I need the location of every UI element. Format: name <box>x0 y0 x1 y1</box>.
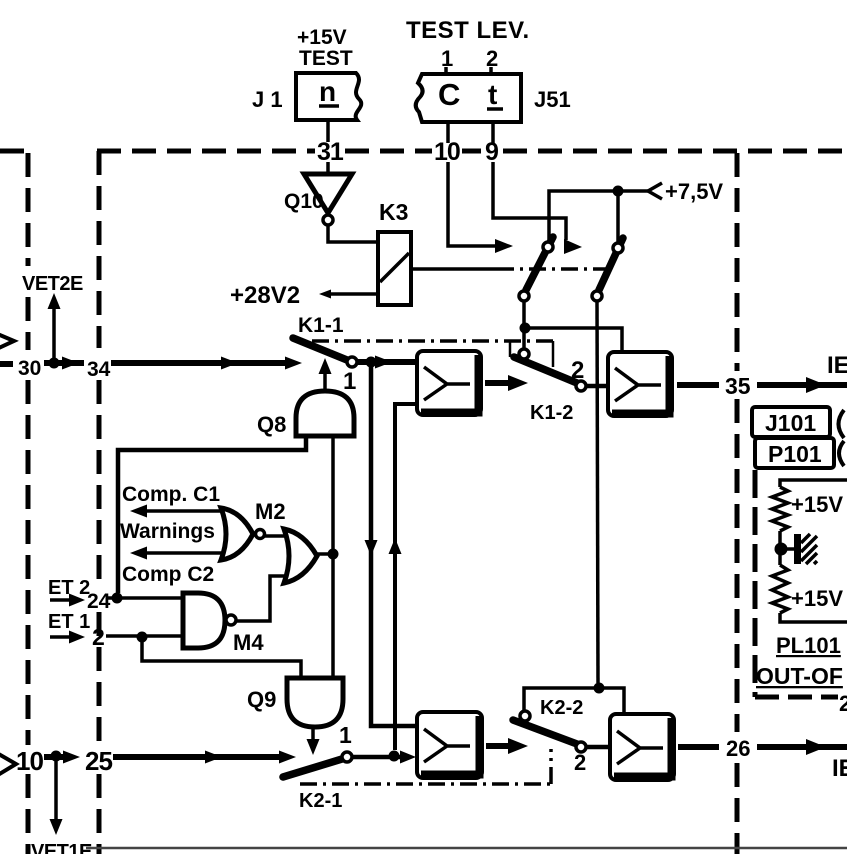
border: main box left edge x99 <box>97 151 102 348</box>
NOR gate M2 <box>221 508 253 560</box>
switch K1-1 contact circle <box>347 357 357 367</box>
K3 mechanical link dash-dot <box>411 267 497 271</box>
svg-text:26: 26 <box>726 736 750 761</box>
svg-text:TEST: TEST <box>299 47 353 70</box>
svg-text:J 1: J 1 <box>252 87 283 112</box>
wire +7,5V feed <box>549 191 651 243</box>
arrowhead up on K2-1 feedback <box>389 538 402 554</box>
connector J1 box <box>296 73 361 120</box>
wire node 35 to IE arrow <box>757 382 847 388</box>
resistor R2 <box>772 565 788 613</box>
wire Comp C1 input <box>144 509 228 513</box>
contact S2 circles <box>613 243 623 253</box>
svg-text:+7,5V: +7,5V <box>665 179 723 204</box>
node ET1 branch <box>137 632 148 643</box>
NAND gate M4 <box>183 593 225 648</box>
svg-text:35: 35 <box>725 373 751 399</box>
resistor R1 <box>772 487 788 531</box>
svg-text:J101: J101 <box>765 410 816 436</box>
wire J51 pin1 to node 10 <box>446 123 450 143</box>
OUT-OF block inner box <box>780 480 847 622</box>
border: main box right edge x737 <box>735 153 740 371</box>
wire node 31 to Q10 <box>326 162 330 174</box>
svg-text:ET 2: ET 2 <box>48 577 90 599</box>
wire 24 to M4 upper input <box>108 596 183 600</box>
svg-text:10: 10 <box>16 746 43 776</box>
svg-text:31: 31 <box>317 138 344 166</box>
amplifier A2 box <box>608 352 672 416</box>
amplifier A3 box <box>417 712 482 778</box>
svg-text:Q10: Q10 <box>284 190 324 213</box>
svg-text:K1-1: K1-1 <box>298 314 344 337</box>
amplifier A1 box <box>417 351 481 415</box>
wire amp4 output to node 26 <box>678 744 719 750</box>
AND gate Q8 <box>296 391 354 436</box>
amplifier A3 symbol <box>424 729 470 762</box>
svg-text:34: 34 <box>87 358 111 381</box>
connector tag J101 <box>752 407 830 437</box>
wire J51 pin2 to node 9 <box>491 123 495 143</box>
amplifier A3 shadow <box>421 716 480 775</box>
node contact1/amp2 branch <box>520 323 531 334</box>
wire +28V2 to K3 coil <box>325 292 378 296</box>
svg-text:2: 2 <box>92 624 105 650</box>
svg-text:ET 1: ET 1 <box>48 611 90 633</box>
inverter Q10 <box>304 174 352 213</box>
svg-text:K2-1: K2-1 <box>299 790 342 812</box>
wire ET1 node to Q9 left input <box>142 637 301 678</box>
border: outer dashed frame stub top-left <box>0 149 30 154</box>
svg-text:+15V: +15V <box>791 586 843 611</box>
partial flow symbol bottom-left <box>0 748 16 781</box>
node OR output <box>328 549 339 560</box>
relay K3 diagonal <box>380 253 409 282</box>
amplifier A4 symbol <box>617 731 663 764</box>
amplifier A1 symbol <box>424 367 470 400</box>
wire amp1 lower input from K2-1 node <box>395 404 417 750</box>
svg-text:VET2E: VET2E <box>22 273 83 295</box>
svg-text:VET1E: VET1E <box>31 841 92 854</box>
svg-text:Warnings: Warnings <box>120 520 215 543</box>
svg-text:Q9: Q9 <box>247 687 276 712</box>
wire 10 to 25 <box>44 754 70 760</box>
wire contact2 bottom long vertical to K2-2 node <box>597 301 598 683</box>
wire VET1E down arrow <box>54 756 58 822</box>
wire M4 output to OR2 lower input <box>236 576 287 621</box>
svg-text:10: 10 <box>434 138 460 166</box>
svg-text:K3: K3 <box>379 199 408 225</box>
wire 25 to K2-1 <box>113 754 280 760</box>
svg-text:2: 2 <box>571 357 584 384</box>
svg-text:t: t <box>488 79 497 110</box>
wire Comp C2 input <box>144 551 228 555</box>
wire OR2 output to node <box>314 552 333 556</box>
wire node 9 to second contact actuate arrow <box>493 162 566 240</box>
wire K2-2 contact to amp4 <box>585 745 610 750</box>
svg-text:25: 25 <box>85 746 112 776</box>
svg-text:+15V: +15V <box>297 26 347 49</box>
svg-text:M2: M2 <box>255 499 286 524</box>
svg-text:Comp. C1: Comp. C1 <box>122 483 220 506</box>
OUT-OF block dashed bottom edge <box>755 695 838 700</box>
scan page edge bottom <box>86 847 847 850</box>
switch K1-2 circles <box>519 349 529 359</box>
svg-text:P101: P101 <box>768 441 822 467</box>
amplifier A1 shadow <box>421 355 479 413</box>
node divider tap <box>775 543 788 556</box>
OUT-OF block dashed left edge <box>753 470 758 697</box>
node VET1E branch <box>51 751 62 762</box>
svg-text:K1-2: K1-2 <box>530 402 573 424</box>
svg-text:24: 24 <box>87 590 111 613</box>
wire J1 pin to node 31 <box>326 121 330 142</box>
svg-text:n: n <box>319 76 336 107</box>
NOR gate M2 bubble <box>256 530 265 539</box>
svg-text:2: 2 <box>486 46 498 71</box>
wire amp2 output to node 35 <box>677 382 719 388</box>
wire contact1 bottom to node K1-2 branch <box>522 301 526 350</box>
switch K2-2 bar <box>513 720 577 744</box>
arrowhead +28V2 pin <box>319 290 331 299</box>
K1 mechanical link dash-dot <box>312 339 553 343</box>
wire Q8 left input <box>118 435 306 593</box>
border: main box top edge y151 <box>97 149 315 154</box>
svg-text:J51: J51 <box>534 87 571 112</box>
wire K1-2 contact to amp2 <box>585 384 608 389</box>
node input 24 <box>112 593 123 604</box>
svg-text:2: 2 <box>839 691 847 716</box>
svg-text:30: 30 <box>18 357 41 380</box>
K2 mechanical link dash-dot <box>300 782 551 786</box>
wire K2-1 contact to amp3 <box>352 755 405 760</box>
wire gate tree vertical Q8-Q9 <box>331 435 335 679</box>
amplifier A2 shadow <box>612 356 670 414</box>
connector tag P101 <box>755 438 834 468</box>
amplifier A4 shadow <box>614 718 672 777</box>
node K2-1/amp1 feedback <box>389 751 400 762</box>
switch K2-1 contact circle <box>342 752 352 762</box>
wire 30 to 34 <box>44 360 84 366</box>
svg-text:Comp C2: Comp C2 <box>122 563 214 586</box>
svg-text:IE: IE <box>832 755 847 782</box>
switch K2-1 bar <box>283 759 342 777</box>
contact S1 circles <box>543 242 553 252</box>
svg-text:1: 1 <box>339 722 352 748</box>
svg-text:M4: M4 <box>233 630 264 655</box>
connector J51 box <box>416 74 521 122</box>
wire Q9 output arrow <box>311 727 315 742</box>
svg-text:PL101: PL101 <box>776 633 841 658</box>
wire Q8 output arrow <box>323 372 327 391</box>
wire node to K2-2 top contact <box>524 688 599 712</box>
switch K1-1 bar <box>293 338 347 360</box>
svg-text:1: 1 <box>343 368 356 395</box>
partial flow symbol top-left <box>0 330 14 353</box>
wire amp1 output to K1-2 <box>485 380 512 386</box>
wire 34 to K1-1 <box>111 360 294 366</box>
switch K1-2 bar <box>514 357 577 383</box>
test point hatched pad <box>794 534 817 564</box>
wire K1-1 contact to amp1 <box>357 359 417 365</box>
border: outer dashed vertical x28 <box>26 153 31 266</box>
bracket at edge <box>839 410 845 466</box>
wire node 26 to IE arrow <box>757 744 847 750</box>
AND gate Q9 <box>287 678 343 727</box>
node junction +7,5V <box>613 186 624 197</box>
wire tap to test point <box>781 547 795 551</box>
contact S2 (test level 2) bar <box>599 238 623 290</box>
wire amp3 output to K2-2 <box>486 743 512 749</box>
svg-text:+15V: +15V <box>791 492 843 517</box>
wire node to amp2 top input <box>525 328 622 352</box>
connector J51 pin stubs <box>446 67 491 74</box>
svg-text:+28V2: +28V2 <box>230 282 300 309</box>
svg-text:TEST LEV.: TEST LEV. <box>406 17 530 44</box>
node VET2E branch <box>49 358 60 369</box>
wire +7,5V to contact 2 <box>616 191 620 243</box>
inverter Q10 bubble <box>323 215 333 225</box>
amplifier A4 box <box>610 714 674 780</box>
svg-text:IE: IE <box>827 352 847 379</box>
svg-text:C: C <box>438 77 460 112</box>
node K1-1 feedback <box>366 357 377 368</box>
wire VET2E up arrow <box>52 305 56 363</box>
wire 2 to M4 lower input <box>106 634 183 638</box>
wire main input 30 left stub <box>0 361 13 367</box>
svg-text:K2-2: K2-2 <box>540 697 583 719</box>
relay K3 box <box>378 232 411 305</box>
node K2-2 feed <box>594 683 605 694</box>
switch K2-2 circles <box>520 711 530 721</box>
OR gate M3 <box>284 529 317 583</box>
contact S1 (test level 1) bar <box>526 237 553 290</box>
svg-text:OUT-OF: OUT-OF <box>756 663 843 689</box>
wire M2 output to OR2 <box>263 534 286 538</box>
svg-text:1: 1 <box>441 46 453 71</box>
arrowhead down on K1-1 feedback <box>365 540 378 556</box>
wire ET2 arrow <box>50 598 72 602</box>
wire node 10 to K3 contact actuate arrow <box>448 162 497 246</box>
NAND gate M4 bubble <box>226 615 236 625</box>
svg-text:Q8: Q8 <box>257 412 286 437</box>
svg-text:2: 2 <box>574 750 586 775</box>
wire ET1 arrow <box>50 635 72 639</box>
arrowhead mid <box>62 357 79 370</box>
connector chevron +7,5V <box>648 183 662 199</box>
wire Q10 output to K3 coil <box>328 226 378 242</box>
amplifier A2 symbol <box>615 368 661 401</box>
wire node to amp4 top input <box>599 688 624 715</box>
wire K1-1 node down to amp3 upper input <box>371 362 416 726</box>
svg-text:9: 9 <box>485 138 499 166</box>
